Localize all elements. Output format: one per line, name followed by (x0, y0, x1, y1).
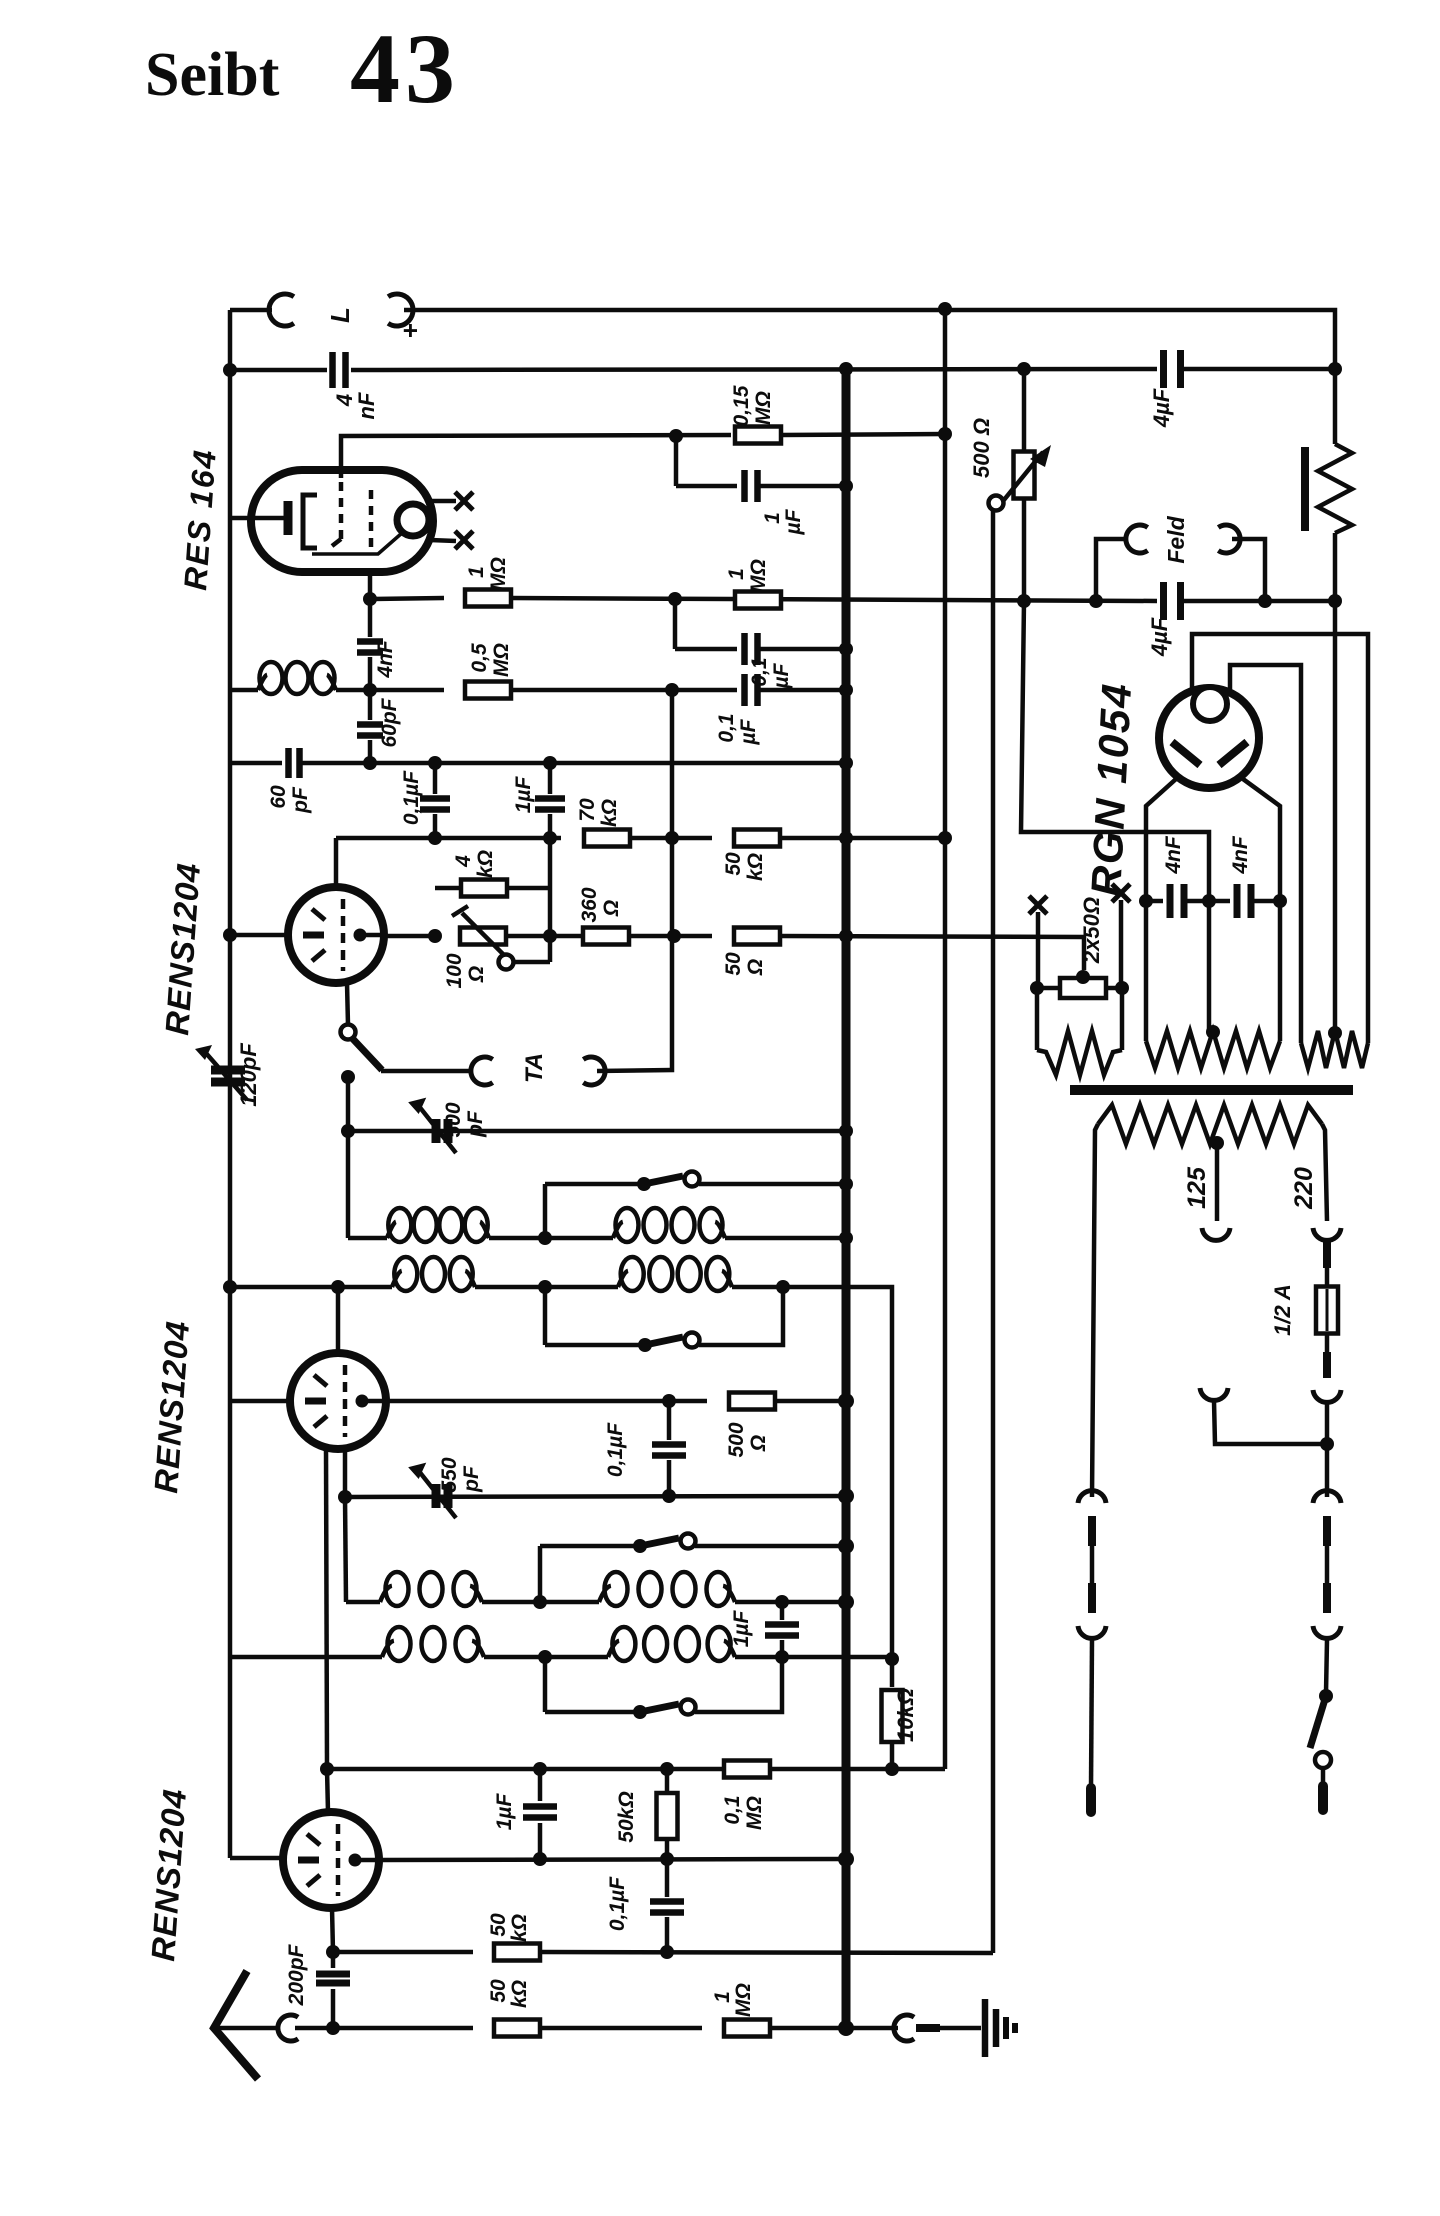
junction below switch (341, 1070, 355, 1084)
RGN1054 filament stroke left (1172, 742, 1200, 765)
junction x545 y1287 (538, 1280, 552, 1294)
wire 1uF link y486 (676, 484, 737, 489)
svg-text:50: 50 (722, 852, 745, 876)
junction bus y1238 (839, 1231, 853, 1245)
RES164 cathode bar (284, 501, 293, 535)
RES164 unused pin stub upper (430, 499, 456, 504)
svg-text:Feld: Feld (1163, 515, 1189, 563)
wire anode line y936 (384, 934, 438, 939)
winding zigzag middle HT (1146, 1031, 1280, 1068)
capacitor 1uF (0.15M bypass) (741, 470, 748, 502)
wire cap to y838 (433, 814, 438, 838)
svg-text:kΩ: kΩ (508, 1914, 531, 1942)
tube anode dot (349, 1854, 362, 1867)
wire S4 row (545, 1710, 636, 1715)
rheostat 100 ohm diagonal (462, 913, 508, 959)
transformer core bar (1070, 1085, 1353, 1095)
capacitor 4uF right top (1160, 350, 1167, 388)
svg-text:10kΩ: 10kΩ (893, 1688, 918, 1742)
wire 4nF mid (1184, 899, 1230, 904)
junction x545 y1238 (538, 1231, 552, 1245)
junction mains y1444 (1320, 1437, 1334, 1451)
wire S1 to bus (699, 1182, 846, 1187)
tube RES164 envelope oval (251, 470, 433, 572)
junction bus y690 (839, 683, 853, 697)
wire row B2 from left rail (230, 1655, 382, 1660)
junction x667 y1859 (660, 1852, 674, 1866)
wire y2028 line (295, 2026, 473, 2031)
junction bus top y369 (839, 362, 853, 376)
svg-text:0,1: 0,1 (715, 713, 738, 742)
junction x540 y1602 (533, 1595, 547, 1609)
wire top rail to right corner then down (404, 310, 1335, 444)
svg-text:kΩ: kΩ (474, 850, 497, 878)
capacitor 1uF x540 (538, 1769, 543, 1801)
junction x669 y1496 (662, 1489, 676, 1503)
tube grid dashed line (343, 1365, 348, 1437)
wire y763 from left rail (230, 761, 282, 766)
wire x-terminal left lead (1036, 912, 1041, 988)
mains switch pivot (1319, 1689, 1333, 1703)
wire tube1 left lead (230, 933, 288, 938)
potentiometer 500 ohm body (1014, 452, 1035, 499)
wire filament winding right leg (1120, 988, 1125, 1050)
junction x435 y936 (428, 929, 442, 943)
wire tube1 top to y838 (334, 838, 339, 887)
tube grid dashed line (336, 1824, 341, 1896)
junction pot top y369 (1017, 362, 1031, 376)
resistor 1Mohm y2028 (724, 2020, 770, 2037)
RGN1054 pin lead right (1243, 779, 1280, 1041)
svg-text:50: 50 (722, 952, 745, 976)
wire y1769 line (327, 1767, 945, 1772)
wire TA to riser x672 (597, 1069, 672, 1071)
wire S2 riser x545 (543, 1287, 548, 1345)
connector Feld arc right (1218, 525, 1240, 553)
capacitor 0.1uF screen line (741, 674, 748, 706)
junction primary tap 125 (1210, 1136, 1224, 1150)
tube RGN1054 top pip (1193, 687, 1227, 721)
svg-text:50kΩ: 50kΩ (615, 1791, 638, 1842)
svg-text:100: 100 (443, 953, 466, 988)
coil L2a (392, 1271, 402, 1287)
wire row B1 from left rail (230, 1285, 392, 1290)
junction bus y1496 (838, 1488, 854, 1504)
junction x783 y1287 (776, 1280, 790, 1294)
wire second rail y=370 (230, 368, 327, 373)
resistor 360 ohm (583, 928, 629, 945)
wire anode line 100ohm to 360ohm (506, 934, 583, 939)
socket arc below fuse (1313, 1390, 1341, 1402)
potentiometer arrow head (1030, 445, 1051, 467)
junction x892 y1769 (885, 1762, 899, 1776)
capacitor 0.1uF (AF line bypass) (741, 633, 748, 665)
resistor 2x50 ohm body (1060, 978, 1106, 998)
junction x540 y1769 (533, 1762, 547, 1776)
wire row A2 (346, 1600, 599, 1605)
wire pot bottom lead (1022, 499, 1027, 601)
svg-text:500: 500 (725, 1422, 748, 1457)
capacitor 0.1uF x435 (420, 795, 450, 802)
svg-text:120pF: 120pF (236, 1043, 261, 1107)
fuse inner line (1326, 1289, 1329, 1331)
junction x370 y690 (363, 683, 377, 697)
junction bus y1546 (838, 1538, 854, 1554)
junction x333 y2028 (326, 2021, 340, 2035)
wire top rail left segment (230, 308, 272, 313)
svg-text:200pF: 200pF (285, 1943, 308, 2006)
tube anode lead (362, 1399, 386, 1404)
tube RENS1204 envelope (283, 1812, 379, 1908)
wire vertical from 500-ohm pot wiper down to tube3 line x=993 (991, 509, 996, 1953)
junction x892 y1657 (885, 1652, 899, 1666)
junction x550 y763 (543, 756, 557, 770)
wire x346 down to row A2 (345, 1497, 346, 1602)
svg-text:MΩ: MΩ (752, 391, 775, 425)
svg-text:pF: pF (464, 1110, 487, 1138)
svg-text:0,1µF: 0,1µF (606, 1876, 629, 1931)
wire grid cap drop x435 with 0.1uF (433, 763, 438, 794)
wire Feld right riser (1232, 539, 1265, 601)
junction grid line x676 (669, 429, 683, 443)
svg-text:µF: µF (782, 508, 805, 535)
resistor 50kohm vertical x667 (665, 1769, 670, 1793)
fuse 1/2 A body (1316, 1287, 1338, 1334)
wire 4nF to y690 line (368, 657, 373, 690)
wire x672 riser 690-1069 (670, 690, 675, 1069)
wire fuse to pin (1325, 1333, 1330, 1352)
junction bus y1131 (839, 1124, 853, 1138)
tube heater dash lower (307, 1875, 320, 1886)
wire primary right leg down (1322, 1124, 1327, 1221)
wire tube2 grid bottom lead (343, 1451, 348, 1497)
winding zigzag left (1037, 1031, 1122, 1075)
wire RES164 bottom lead to 1M line (368, 572, 373, 599)
junction bus y486 (839, 479, 853, 493)
junction bus y936 (839, 929, 853, 943)
tube cathode bar (303, 932, 324, 939)
connector speaker arc left (269, 294, 294, 326)
rheostat T bar (452, 906, 468, 916)
coil L4b (608, 1641, 619, 1657)
plug pin right top (1323, 1516, 1331, 1546)
tube RENS1204 envelope (288, 887, 384, 983)
svg-text:50: 50 (487, 1913, 510, 1937)
wire y1952 bias line (333, 1950, 473, 1955)
junction x672 y690 (665, 683, 679, 697)
wire 70k to 50k (630, 836, 712, 841)
junction x540 y1859 (533, 1852, 547, 1866)
junction bus y649 (839, 642, 853, 656)
plug pin 220 (1323, 1242, 1331, 1268)
capacitor 60pF horizontal (285, 748, 292, 778)
mains switch circle (1315, 1752, 1331, 1768)
wire grid line y1496 (345, 1496, 846, 1497)
svg-text:0,1: 0,1 (721, 1795, 744, 1824)
tube heater dash upper (314, 1375, 327, 1386)
wire left column middle (1090, 1546, 1095, 1583)
wire S2 to riser x783 (699, 1287, 783, 1345)
resistor 4kohm (461, 880, 507, 897)
svg-text:1: 1 (711, 1991, 734, 2003)
winding primary zigzag (1098, 1105, 1322, 1144)
svg-text:MΩ: MΩ (743, 1796, 766, 1830)
tube cathode bar (305, 1398, 326, 1405)
wire x348 down to 500pF line (346, 1077, 351, 1238)
wire Feld left riser (1096, 539, 1127, 601)
svg-text:Seibt: Seibt (145, 41, 280, 109)
junction x333 y1952 (326, 1945, 340, 1959)
earth plug pin (916, 2024, 940, 2032)
tube anode dot (354, 929, 367, 942)
wire 4nF to right pin (1251, 899, 1280, 904)
svg-text:µF: µF (770, 662, 793, 689)
plug arc 125 below (1200, 1388, 1228, 1400)
wire S3 riser x540 (538, 1546, 543, 1602)
tube cathode bar (298, 1857, 319, 1864)
capacitor 4nF left (1167, 884, 1174, 918)
mains cord pin left (1086, 1788, 1096, 1812)
plug pin left bottom (1088, 1583, 1096, 1613)
junction bus y1602 (838, 1594, 854, 1610)
wire 0.1uF to bus (758, 647, 846, 652)
wire anode top link B (1230, 665, 1301, 1043)
wire 125 tap lead (1215, 1143, 1220, 1221)
resistor 10kohm vertical (890, 1659, 895, 1687)
capacitor 0.1uF x667 lower (665, 1859, 670, 1897)
junction tube2 top (331, 1280, 345, 1294)
wire 1M to bus & earth arc (770, 2026, 898, 2031)
svg-text:4nF: 4nF (374, 639, 397, 679)
junction Feld left x1096 (1089, 594, 1103, 608)
junction top rail / x945 (938, 302, 952, 316)
svg-text:MΩ: MΩ (487, 557, 510, 591)
wire second rail continues to 4uF (351, 369, 1157, 370)
wire 500pF line y1131 (348, 1129, 846, 1134)
junction right rail y369 (1328, 362, 1342, 376)
wire left rail corner to RF choke (230, 688, 258, 693)
resistor 50 ohm (734, 928, 780, 945)
svg-text:0,1µF: 0,1µF (604, 1422, 627, 1477)
svg-text:1µF: 1µF (512, 776, 535, 814)
tube anode dot (356, 1395, 369, 1408)
junction 2x50 left (1030, 981, 1044, 995)
winding zigzag right (rectifier filament) (1301, 1031, 1368, 1068)
svg-text:MΩ: MΩ (732, 1983, 755, 2017)
svg-text:4µF: 4µF (1149, 388, 1174, 428)
x terminal right (1112, 884, 1130, 902)
junction x370 y763 (363, 756, 377, 770)
junction x669 y1401 (662, 1394, 676, 1408)
svg-text:1/2 A: 1/2 A (1270, 1284, 1295, 1336)
coil L3a (380, 1586, 392, 1602)
junction 2x50 right (1115, 981, 1129, 995)
wire row B1 mid (475, 1285, 618, 1290)
wire 0.5M to cap 0.1uF (511, 688, 737, 693)
junction bus y2028 (838, 2020, 854, 2036)
wire tube3 left lead (230, 1856, 283, 1861)
svg-text:MΩ: MΩ (490, 643, 513, 677)
junction Feld right x1265 (1258, 594, 1272, 608)
junction left rail y1287 (223, 1280, 237, 1294)
svg-text:70: 70 (576, 798, 599, 822)
wire S1 row y1184 (543, 1184, 548, 1238)
svg-text:60: 60 (267, 785, 290, 809)
junction rect top centre (1076, 970, 1090, 984)
capacitor 4nF top-left (329, 352, 336, 388)
rheostat wiper circle (499, 955, 514, 970)
svg-text:360: 360 (578, 887, 601, 922)
wire 4k row y888 (435, 886, 462, 891)
junction x672 y838 (665, 831, 679, 845)
svg-text:+: + (395, 323, 425, 338)
wire right rail y601-1032 (1333, 601, 1338, 1032)
svg-text:220: 220 (1290, 1167, 1318, 1210)
RES164 cathode lead from left rail (230, 516, 284, 521)
RES164 anode inner tail (312, 533, 402, 554)
junction x550 y936 (543, 929, 557, 943)
connector TA arc left (471, 1057, 493, 1085)
resistor 0.5Mohm (465, 682, 511, 699)
wire 0.1uF drop x669 (667, 1401, 672, 1440)
wire to right rail y601 (1181, 599, 1335, 604)
svg-text:µF: µF (737, 718, 760, 745)
mains cord pin right (1318, 1786, 1328, 1810)
junction x435 y838 (428, 831, 442, 845)
wire S1 horizontal (545, 1182, 640, 1187)
resistor 0.15Mohm (735, 427, 781, 444)
wire S2 row (545, 1343, 641, 1348)
wire right rail resistor section (1333, 442, 1338, 447)
switch S1 (637, 1177, 651, 1191)
wire switch to cord pin (1321, 1768, 1326, 1786)
wire 50k to x945 (780, 836, 945, 841)
wire tube2 top riser (336, 1287, 341, 1353)
socket arc 220 (1313, 1228, 1341, 1240)
wire 4k right lead and wiper link (506, 886, 550, 891)
junction bus y1401 (838, 1393, 854, 1409)
junction left rail y935 (223, 928, 237, 942)
wire tube1 bottom lead (347, 983, 348, 1025)
wire grid-cap line y=436 from tube top (341, 435, 731, 478)
RES164 anode circle (397, 504, 429, 536)
ground symbol bars (982, 1999, 989, 2057)
capacitor 60pF vertical (357, 721, 383, 728)
RES164 grid bottom hook (332, 539, 341, 546)
svg-text:Ω: Ω (747, 1435, 770, 1452)
junction right rail y601 (1328, 594, 1342, 608)
connector Feld arc left (1126, 525, 1148, 553)
switch S3 (633, 1539, 647, 1553)
wire antenna lead (218, 2026, 280, 2031)
wire RES164 cathode chain x370 down (368, 599, 373, 637)
wire y763 continues to bus (300, 761, 846, 766)
svg-text:0,5: 0,5 (468, 643, 491, 673)
svg-text:125: 125 (1183, 1166, 1211, 1209)
junction x667 y1769 (660, 1762, 674, 1776)
resistor 70kohm (584, 830, 630, 847)
x mark upper (455, 492, 473, 510)
coil L4a (382, 1641, 394, 1657)
socket arc left column top (1078, 1491, 1106, 1503)
resistor 1Mohm left (465, 590, 511, 607)
RGN1054 pin lead left (1146, 779, 1176, 1041)
plug pin below fuse (1323, 1352, 1331, 1378)
junction bus y1184 (839, 1177, 853, 1191)
junction x945 y838 (938, 831, 952, 845)
junction x782 y1602 (775, 1595, 789, 1609)
tube heater dash upper (312, 909, 325, 920)
junction x550 y838 (543, 831, 557, 845)
wire row A1 to bus (725, 1236, 846, 1241)
wire 50k to 1M (540, 2026, 702, 2031)
wire S4 riser x545 (543, 1657, 548, 1712)
resistor 50kohm screen feed (734, 830, 780, 847)
wire row A1 left riser (346, 1236, 351, 1241)
wire drop x550 with 1uF (548, 763, 553, 794)
svg-text:0,1µF: 0,1µF (400, 770, 423, 825)
wire tube3 bottom lead (332, 1908, 333, 1952)
capacitor 4uF lower right (1160, 582, 1167, 620)
tube heater dash upper (307, 1834, 320, 1845)
wire tube3 anode line (379, 1859, 846, 1860)
svg-text:kΩ: kΩ (508, 1980, 531, 2008)
switch S2 (638, 1338, 652, 1352)
svg-text:4nF: 4nF (1162, 835, 1185, 875)
variable capacitor 550pF (432, 1484, 441, 1508)
svg-text:L: L (325, 307, 355, 323)
socket arc right column bottom (1313, 1626, 1341, 1638)
svg-text:500: 500 (442, 1102, 465, 1137)
wire choke to 0.5M (336, 688, 444, 693)
wire left column lower (1091, 1640, 1092, 1788)
coil L3b (599, 1586, 611, 1602)
wire 1uF to bus (758, 484, 846, 489)
wire wiper link y962 (514, 960, 550, 965)
capacitor 4nF right (1234, 884, 1241, 918)
variable capacitor 500pF (432, 1119, 441, 1143)
wire 0.1uF link y649 (675, 647, 737, 652)
junction x345 y1497 (338, 1490, 352, 1504)
svg-text:43: 43 (350, 13, 460, 124)
wire pot top lead x1024 (1022, 369, 1027, 452)
wire cap x550 to y838 (548, 814, 553, 838)
junction bus y838 (839, 831, 853, 845)
junction 1M line x1024 (1017, 594, 1031, 608)
junction x348 y1131 (341, 1124, 355, 1138)
svg-text:1: 1 (725, 568, 748, 580)
wire tube2 left lead (230, 1399, 290, 1404)
junction x545 y1657 (538, 1650, 552, 1664)
wire 1M grid-leak line y=598 (370, 598, 444, 599)
wire 125 plug to 220 column (1214, 1401, 1327, 1444)
switch lever to TA line (352, 1038, 382, 1070)
coil L2b (618, 1271, 628, 1287)
wire TA line (381, 1069, 471, 1074)
svg-text:kΩ: kΩ (598, 799, 621, 827)
potentiometer wiper circle (989, 496, 1004, 511)
wire x-terminal right lead (1119, 900, 1124, 988)
resistor 1Mohm right (AF coupling) (735, 592, 781, 609)
svg-text:550: 550 (438, 1457, 461, 1492)
wire y838 line (336, 836, 561, 841)
switch S4 (633, 1705, 647, 1719)
RES164 unused pin stub lower (430, 540, 456, 541)
plug pin right bottom (1323, 1583, 1331, 1613)
socket arc left column bottom (1078, 1626, 1106, 1638)
svg-text:Ω: Ω (600, 900, 623, 917)
wire left bus vertical x=230 (antenna/ground side rail) (228, 310, 233, 1858)
